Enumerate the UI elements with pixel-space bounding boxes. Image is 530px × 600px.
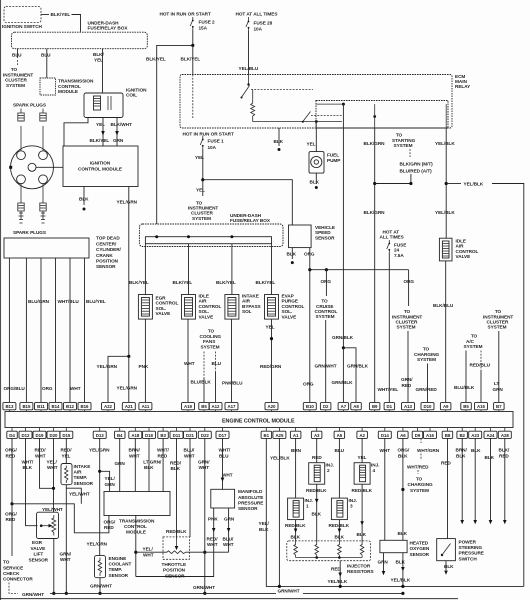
svg-text:RED: RED: [6, 453, 16, 458]
wire BLK/YEL to ignition coil: [102, 49, 104, 93]
pin A28 (bottom): [498, 428, 511, 439]
top dead center/cylinder/crank position sensor: [4, 238, 89, 258]
resistor 1: [294, 541, 298, 558]
svg-text:WHT: WHT: [60, 557, 71, 562]
svg-text:LIFT: LIFT: [34, 552, 44, 557]
svg-text:B11: B11: [37, 404, 45, 409]
wire fuel pump BLK: [315, 173, 317, 184]
svg-text:ALL TIMES: ALL TIMES: [380, 235, 404, 240]
svg-text:CENTER/: CENTER/: [96, 241, 117, 246]
svg-text:A25: A25: [275, 433, 284, 438]
pin B16 (top): [78, 403, 91, 412]
wire ORG to cruise control: [325, 270, 327, 296]
svg-text:GRN: GRN: [115, 461, 126, 466]
svg-text:WHT/RED: WHT/RED: [407, 464, 429, 469]
pin A7 (top): [338, 403, 349, 412]
relay BLK stub: [278, 128, 280, 146]
pin A11 (top): [139, 403, 152, 412]
svg-text:D17: D17: [219, 433, 228, 438]
svg-text:YEL/GRN: YEL/GRN: [117, 386, 138, 391]
svg-text:4: 4: [373, 468, 376, 473]
wire TDC to B11: [40, 258, 42, 402]
svg-text:POSITION: POSITION: [163, 568, 186, 573]
svg-text:SENSOR: SENSOR: [29, 557, 49, 562]
svg-text:POSITION: POSITION: [96, 259, 119, 264]
EVAP purge control sol valve: [265, 295, 279, 320]
wire ICM YEL/GRN to A21: [128, 187, 130, 403]
svg-text:YEL/GRN: YEL/GRN: [97, 364, 118, 369]
wire A22 bracket to A21: [108, 356, 129, 402]
wire HO2S GRN stub: [383, 553, 385, 571]
svg-text:SENSOR: SENSOR: [165, 573, 185, 578]
pin B11 (top): [35, 403, 48, 412]
svg-text:SENSOR: SENSOR: [74, 481, 94, 486]
svg-text:BLU/RED (A/T): BLU/RED (A/T): [400, 168, 433, 173]
svg-text:BLK/YEL: BLK/YEL: [129, 280, 149, 285]
pin A6 (bottom): [398, 428, 409, 439]
pin A24 (bottom): [484, 428, 497, 439]
svg-text:ORG/: ORG/: [5, 448, 18, 453]
wire TDC to B16: [84, 258, 86, 402]
svg-text:1: 1: [306, 504, 309, 509]
svg-text:B8: B8: [445, 433, 451, 438]
intake air bypass sol: [225, 295, 239, 320]
wire A15 to A/C: [480, 351, 482, 371]
transmission control module (top): [40, 78, 56, 95]
wire relay YEL/BLK down: [445, 104, 447, 128]
wire ORG to B10: [309, 270, 311, 402]
svg-text:RED: RED: [104, 525, 114, 530]
pin B4 (bottom): [115, 428, 126, 439]
fuel pump: [309, 152, 324, 174]
svg-text:GRN/WHT: GRN/WHT: [22, 592, 44, 597]
wire TDC to B15: [25, 258, 27, 402]
svg-text:YEL/: YEL/: [259, 521, 270, 526]
wire box2 to EVAP sol: [271, 244, 273, 295]
svg-text:B5: B5: [463, 404, 469, 409]
relay contact dashed link 1: [251, 89, 313, 91]
injector no.3: [331, 498, 347, 519]
svg-text:A12: A12: [212, 404, 221, 409]
svg-text:SENSOR: SENSOR: [109, 573, 129, 578]
svg-text:FUSE 1: FUSE 1: [208, 139, 225, 144]
svg-text:YEL/GRN: YEL/GRN: [87, 541, 108, 546]
svg-text:YEL/BLK: YEL/BLK: [391, 577, 411, 582]
svg-text:CYLINDER/: CYLINDER/: [96, 247, 122, 252]
svg-text:B14: B14: [52, 404, 61, 409]
wire branch to starting system: [375, 174, 411, 184]
wire D18 LT GRN/BLK into TCM: [148, 438, 150, 491]
wire coil BLK/WHT-GRN: [116, 118, 118, 147]
svg-text:YEL: YEL: [196, 187, 205, 192]
svg-text:ABSOLUTE: ABSOLUTE: [238, 495, 263, 500]
svg-text:BLK/BLU: BLK/BLU: [433, 303, 454, 308]
svg-text:A7: A7: [341, 404, 347, 409]
resistor 4: [360, 541, 364, 558]
svg-text:CRANK: CRANK: [96, 253, 113, 258]
svg-text:A15: A15: [477, 404, 486, 409]
pin D10 (top): [421, 403, 434, 412]
wire INJ1 RED/BLK-BLK: [295, 520, 297, 541]
svg-text:BRN/: BRN/: [129, 448, 141, 453]
svg-text:YEL: YEL: [195, 155, 204, 160]
wire B1 YEL/BLK down: [266, 438, 524, 586]
wire fuse 24 to D1: [388, 253, 390, 402]
wire B8 RED to PSP switch: [447, 438, 449, 538]
svg-text:B16: B16: [81, 404, 90, 409]
pin B2 (bottom): [457, 428, 468, 439]
svg-text:BRN: BRN: [291, 448, 302, 453]
svg-text:BLU: BLU: [212, 361, 222, 366]
wire TDC to B13: [8, 258, 10, 402]
pin B3 (bottom): [158, 428, 169, 439]
svg-text:GRN/BLK: GRN/BLK: [332, 335, 354, 340]
wire YEL/BLK branch to right edge: [446, 183, 461, 185]
relay coil 1 wire: [192, 75, 194, 119]
under-dash fuse/relay box 1: [12, 32, 148, 49]
svg-text:GRN/BLK: GRN/BLK: [347, 363, 369, 368]
svg-text:A24: A24: [487, 433, 496, 438]
svg-text:ENGINE CONTROL MODULE: ENGINE CONTROL MODULE: [222, 419, 295, 425]
wire PSP BLK stub: [445, 561, 447, 570]
pin D13 (bottom): [93, 428, 106, 439]
svg-text:SYSTEM: SYSTEM: [394, 143, 413, 148]
svg-text:VALVE: VALVE: [199, 314, 214, 319]
pin B1 (bottom): [261, 428, 272, 439]
wire EVAP sol YEL/RED-GRN to A20: [271, 319, 273, 402]
svg-text:CONTROL MODULE: CONTROL MODULE: [78, 167, 122, 172]
svg-text:FUSE 2: FUSE 2: [199, 19, 216, 24]
svg-text:PRESSURE: PRESSURE: [459, 551, 484, 556]
svg-text:B9: B9: [372, 404, 378, 409]
svg-text:BLU: BLU: [12, 52, 22, 57]
svg-text:RED/BLK: RED/BLK: [285, 523, 306, 528]
wire TDC to B12: [69, 258, 71, 402]
svg-text:BLK: BLK: [310, 179, 320, 184]
ignition coil: [84, 93, 123, 118]
svg-text:BLK: BLK: [287, 251, 297, 256]
svg-text:B3: B3: [160, 433, 166, 438]
svg-text:ORG/BLU: ORG/BLU: [4, 386, 26, 391]
svg-text:BLK: BLK: [398, 531, 408, 536]
wire VSS ORG down: [309, 248, 311, 270]
svg-text:IGNITION: IGNITION: [90, 161, 111, 166]
svg-text:GRN: GRN: [113, 138, 124, 143]
svg-text:B10: B10: [306, 404, 315, 409]
svg-text:WHT/: WHT/: [219, 448, 232, 453]
pin D18 (bottom): [143, 428, 156, 439]
svg-text:ORG: ORG: [321, 279, 332, 284]
svg-text:BLU/: BLU/: [223, 536, 234, 541]
svg-text:TRANSMISSION: TRANSMISSION: [119, 518, 155, 523]
injector no.1: [288, 498, 304, 519]
resistor 3: [338, 541, 342, 558]
svg-text:A6: A6: [400, 433, 406, 438]
svg-text:D15: D15: [62, 433, 71, 438]
wire D14 WHT to HO2S: [384, 438, 386, 540]
wire B4 GRN into TCM: [119, 438, 121, 491]
svg-text:GRN: GRN: [378, 559, 389, 564]
pin D1 (top): [384, 403, 395, 412]
svg-text:SWITCH: SWITCH: [459, 556, 478, 561]
wire IAT GRN/WHT to ground rail: [65, 485, 67, 594]
svg-text:BLK: BLK: [398, 453, 408, 458]
svg-text:B5: B5: [201, 404, 207, 409]
svg-text:B1: B1: [264, 433, 270, 438]
svg-text:CONNECTOR: CONNECTOR: [3, 577, 33, 582]
bracket A7/A8: [342, 346, 345, 349]
svg-text:BLK/: BLK/: [499, 448, 510, 453]
svg-text:A13: A13: [404, 404, 413, 409]
svg-text:BLK/YEL: BLK/YEL: [173, 280, 193, 285]
wire BLU to TCM: [46, 49, 48, 78]
svg-text:BLK: BLK: [259, 527, 269, 532]
wire BLU to instrument cluster: [17, 49, 19, 58]
svg-text:PNK/BLU: PNK/BLU: [222, 381, 243, 386]
svg-text:RED/GRN: RED/GRN: [260, 364, 282, 369]
svg-text:YEL/: YEL/: [143, 547, 154, 552]
svg-text:BLK: BLK: [291, 535, 301, 540]
pin A5 (bottom): [334, 428, 345, 439]
svg-text:SYSTEM: SYSTEM: [316, 314, 335, 319]
wire B3 WHT/RED into TCM: [162, 438, 164, 491]
svg-text:WHT: WHT: [129, 453, 140, 458]
svg-text:10A: 10A: [208, 145, 217, 150]
pin D12 (bottom): [19, 428, 32, 439]
svg-text:7.5A: 7.5A: [394, 253, 404, 258]
svg-text:WHT/: WHT/: [22, 459, 35, 464]
pin B10 (top): [303, 403, 316, 412]
svg-text:FUSE 28: FUSE 28: [254, 20, 273, 25]
svg-text:BLK: BLK: [485, 455, 495, 460]
wire D11 RED/BLK to TPS wiper: [176, 438, 178, 539]
svg-text:BLU/GRN: BLU/GRN: [28, 299, 50, 304]
svg-text:D13: D13: [96, 433, 105, 438]
manifold absolute pressure sensor: [211, 489, 235, 508]
svg-text:BLK/YEL: BLK/YEL: [51, 12, 71, 17]
wire HO2S BLK to YEL/BLK line: [402, 553, 404, 587]
svg-text:A3: A3: [314, 433, 320, 438]
svg-text:TOP DEAD: TOP DEAD: [96, 236, 120, 241]
engine coolant temp sensor: [95, 556, 106, 578]
wire ORG to instrument cluster / A13: [408, 270, 410, 306]
wire D12 WHT/BLK to EGR lift wiper: [26, 438, 38, 525]
svg-text:D18: D18: [145, 433, 154, 438]
svg-text:GRN/: GRN/: [198, 459, 210, 464]
pin B7 (top): [494, 403, 505, 412]
svg-text:WHT: WHT: [207, 542, 218, 547]
svg-text:TO: TO: [3, 560, 10, 565]
svg-text:A1: A1: [293, 433, 299, 438]
svg-text:PNK: PNK: [139, 364, 149, 369]
relay contact dashed link 2: [311, 114, 342, 116]
svg-text:GRN/WHT: GRN/WHT: [193, 585, 215, 590]
pin A12 (top): [209, 403, 222, 412]
wire IACV BLK/BLU to A9: [445, 261, 447, 402]
svg-text:RED: RED: [402, 383, 412, 388]
wire relay BLK/GRN down: [373, 115, 376, 118]
wire INJ2 RED/BLK-BLK: [316, 484, 318, 541]
svg-text:RED/: RED/: [207, 536, 219, 541]
pin A16 (bottom): [424, 428, 437, 439]
wire A13 up: [407, 331, 409, 402]
svg-text:PRESSURE: PRESSURE: [238, 501, 263, 506]
svg-text:B15: B15: [22, 404, 31, 409]
spark plug 1: [18, 109, 24, 151]
ground rail GRN/WHT: [50, 592, 276, 594]
wire A6 ORG/BLK to HO2S: [402, 438, 404, 540]
wire EGR lift to ground rail: [53, 539, 55, 594]
svg-text:HOT IN RUN OR START: HOT IN RUN OR START: [183, 131, 234, 136]
pin B13 (top): [3, 403, 16, 412]
EGR control sol valve: [138, 295, 152, 320]
pin A22 (top): [102, 403, 115, 412]
pin A15 (top): [475, 403, 488, 412]
power steering pressure switch: [437, 539, 456, 561]
wire A3 RED to INJ2: [316, 438, 318, 462]
svg-text:INJ.: INJ.: [349, 498, 357, 503]
svg-text:WHT: WHT: [380, 448, 391, 453]
wire YEL branch to vehicle speed sensor: [203, 180, 292, 225]
svg-text:COIL: COIL: [126, 93, 137, 98]
svg-text:IGNITION SWITCH: IGNITION SWITCH: [2, 24, 43, 29]
svg-text:YEL/WHT: YEL/WHT: [69, 491, 90, 496]
svg-text:RED/: RED/: [35, 448, 47, 453]
svg-text:FUSE/RELAY BOX: FUSE/RELAY BOX: [88, 26, 129, 31]
svg-text:SYSTEM: SYSTEM: [201, 344, 220, 349]
wire fuse2 to relay coil: [192, 45, 194, 74]
svg-text:YEL: YEL: [96, 122, 105, 127]
svg-text:A8: A8: [353, 404, 359, 409]
throttle position sensor: [163, 537, 190, 559]
wire MAP GRN / BLU-WHT: [228, 508, 230, 552]
svg-text:A5: A5: [337, 433, 343, 438]
idle air control valve: [439, 238, 452, 261]
wire D19 RED/WHT: [40, 438, 54, 488]
wire A23 BLK stub: [474, 438, 476, 520]
svg-text:YEL/BLK: YEL/BLK: [435, 141, 455, 146]
svg-text:MANIFOLD: MANIFOLD: [238, 489, 263, 494]
svg-text:A28: A28: [501, 433, 510, 438]
svg-text:GRN: GRN: [224, 517, 235, 522]
wire A18 BRN/WHT into TCM: [134, 438, 136, 491]
svg-text:RED: RED: [331, 567, 341, 572]
svg-text:ORG: ORG: [303, 382, 314, 387]
svg-text:RED: RED: [312, 455, 322, 460]
wire cruise to D2: [325, 320, 327, 402]
svg-text:TEMP.: TEMP.: [109, 567, 122, 572]
pin A23 (bottom): [469, 428, 482, 439]
wire A24 BLK stub: [490, 438, 492, 520]
svg-text:D4: D4: [9, 433, 15, 438]
svg-text:D22: D22: [201, 433, 210, 438]
pin A1 (bottom): [290, 428, 301, 439]
svg-text:INJ.: INJ.: [371, 462, 379, 467]
svg-text:ORG: ORG: [304, 251, 315, 256]
wire relay fuel pump takeoff: [315, 120, 318, 123]
wire A1 BRN to INJ1: [295, 438, 297, 498]
svg-text:YEL/: YEL/: [47, 459, 58, 464]
pin D2 (top): [320, 403, 331, 412]
svg-text:D12: D12: [22, 433, 31, 438]
svg-text:SYSTEM: SYSTEM: [410, 488, 429, 493]
pin D15 (bottom): [60, 428, 73, 439]
svg-text:PUMP: PUMP: [327, 158, 340, 163]
wire A25 down: [278, 438, 280, 586]
svg-text:ORG/: ORG/: [5, 511, 18, 516]
svg-text:GRN/RED: GRN/RED: [416, 387, 438, 392]
svg-text:D19: D19: [36, 433, 45, 438]
svg-text:WHT: WHT: [143, 552, 154, 557]
svg-text:FUSE/RELAY BOX: FUSE/RELAY BOX: [230, 218, 271, 223]
svg-text:A21: A21: [125, 404, 134, 409]
svg-text:BLK: BLK: [79, 197, 89, 202]
svg-text:RED/BLK: RED/BLK: [352, 488, 373, 493]
svg-text:BLK: BLK: [144, 465, 154, 470]
wire A2 YEL to INJ4: [361, 438, 363, 462]
pin D4 (bottom): [7, 428, 17, 439]
wire relay GRN/BLK down to A7: [342, 104, 344, 348]
svg-text:YEL: YEL: [266, 325, 275, 330]
fuse 24 7.5A: [387, 240, 390, 253]
wire YEL/GRN branch into TCM: [100, 471, 110, 491]
svg-text:YEL/BLU: YEL/BLU: [239, 66, 259, 71]
pin D22 (bottom): [198, 428, 211, 439]
svg-text:HOT AT ALL TIMES: HOT AT ALL TIMES: [236, 11, 278, 16]
svg-text:WHT: WHT: [70, 386, 81, 391]
wire IAB sol PNK/BLU to A17: [231, 319, 233, 402]
svg-text:A9: A9: [443, 404, 449, 409]
injector resistors box: [287, 541, 371, 561]
page bottom border: [0, 598, 458, 600]
EGR valve lift sensor: [37, 512, 59, 538]
pin B5 (top): [199, 403, 210, 412]
svg-text:B12: B12: [66, 404, 75, 409]
svg-text:RED: RED: [499, 453, 509, 458]
spark plug 2: [40, 109, 46, 151]
svg-text:SYSTEM: SYSTEM: [417, 357, 436, 362]
pin D14 (bottom): [378, 428, 391, 439]
engine control module: [5, 412, 513, 428]
intake air temp sensor: [61, 464, 72, 485]
svg-text:SYSTEM: SYSTEM: [488, 325, 507, 330]
svg-text:BLK/GRN (M/T): BLK/GRN (M/T): [400, 161, 434, 166]
distributor (ignition rotor): [11, 146, 54, 189]
wire fuse1 YEL down: [202, 149, 204, 196]
svg-text:GRN: GRN: [493, 387, 504, 392]
svg-text:HOT IN RUN OR START: HOT IN RUN OR START: [160, 11, 211, 16]
svg-text:BLU: BLU: [335, 448, 345, 453]
wire VSS BLK stub: [291, 248, 293, 259]
relay switch 1: [241, 75, 250, 99]
svg-text:BLK/GRN: BLK/GRN: [364, 210, 386, 215]
svg-text:WHT: WHT: [184, 361, 195, 366]
svg-text:WHT: WHT: [35, 453, 46, 458]
svg-text:A22: A22: [104, 404, 113, 409]
pin A3 (bottom): [311, 428, 322, 439]
svg-text:BLK: BLK: [312, 512, 322, 517]
svg-text:OXYGEN: OXYGEN: [410, 546, 430, 551]
svg-text:EGR: EGR: [32, 540, 43, 545]
svg-text:3: 3: [350, 504, 353, 509]
wire D21 BLU/WHT: [189, 438, 191, 537]
svg-text:RED/BLK: RED/BLK: [306, 488, 327, 493]
wire TCM bottom to TPS/MAP line: [135, 516, 137, 577]
pin D20 (bottom): [47, 428, 60, 439]
svg-text:A17: A17: [228, 404, 237, 409]
relay inner link wires: [253, 120, 342, 123]
svg-text:BLK/GRN: BLK/GRN: [364, 141, 386, 146]
